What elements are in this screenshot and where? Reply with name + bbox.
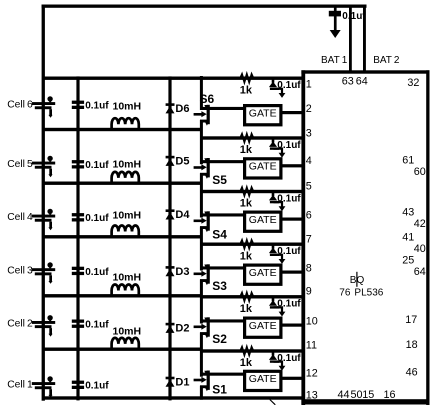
svg-text:32: 32 [407, 77, 419, 89]
svg-text:S2: S2 [212, 332, 227, 346]
svg-text:0.1uf: 0.1uf [85, 267, 109, 278]
svg-text:6: 6 [306, 209, 312, 221]
wire S4 gate-driver input [201, 213, 245, 216]
capacitor C5 0.1uf (cell 5) [72, 160, 84, 168]
svg-text:GATE: GATE [249, 267, 277, 279]
pin 42 label (right) [414, 218, 426, 230]
wire GATE (S5) to pin 4 [281, 164, 303, 167]
wire top rail (pack+ to BAT pins) [42, 5, 367, 8]
transistor S2 (MOSFET switch) [194, 317, 210, 338]
label S6 [200, 92, 215, 106]
label Cell 2 [7, 318, 33, 329]
svg-text:11: 11 [306, 340, 317, 352]
pin 4 label [306, 155, 312, 167]
svg-text:0.1uf: 0.1uf [277, 140, 301, 151]
svg-text:9: 9 [306, 286, 312, 298]
svg-text:10mH: 10mH [113, 272, 142, 284]
resistor R2 1k (pin 9) [239, 293, 255, 301]
gate driver box GATE (S6) [245, 106, 281, 125]
label 0.1uf (pin 11) [277, 353, 301, 364]
wire GATE (S6) to pin 2 [281, 111, 303, 114]
label 10mH (L4) [113, 210, 142, 222]
svg-text:BAT 2: BAT 2 [373, 55, 400, 66]
wire to pin 7 [200, 243, 303, 246]
label 1k (pin 5) [240, 198, 253, 210]
svg-text:2: 2 [306, 103, 312, 115]
wire left battery bus [42, 5, 45, 401]
capacitor C3 0.1uf (cell 3) [72, 267, 84, 275]
inductor L5 10mH [112, 172, 139, 184]
label 0.1uf (pin 7) [277, 246, 301, 257]
svg-text:0.1uf: 0.1uf [277, 80, 301, 91]
wire S1 gate-driver input [201, 373, 245, 376]
svg-text:10mH: 10mH [113, 158, 142, 170]
capacitor 0.1uf (BAT filter) [329, 7, 341, 38]
label D2 [175, 323, 189, 335]
svg-text:63: 63 [342, 75, 354, 87]
op-amp U1 BQ76PL536 IC outline [301, 70, 429, 405]
label 0.1uf (pin 1) [277, 80, 301, 91]
capacitor 0.1uf bypass (pin 11) [269, 352, 286, 371]
label S5 [212, 173, 227, 187]
label Cell 6 [7, 99, 33, 110]
label 1k (pin 3) [240, 144, 253, 156]
pin 1 label [306, 79, 312, 91]
label D6 [175, 103, 189, 115]
pin 61 label (right) [402, 154, 414, 166]
wire diode bus [168, 76, 171, 400]
svg-text:Cell 4: Cell 4 [7, 212, 33, 223]
svg-text:10: 10 [306, 315, 318, 327]
svg-text:13: 13 [306, 390, 318, 402]
label 0.1uf (C1) [85, 381, 109, 392]
label D3 [175, 266, 189, 278]
svg-text:15: 15 [362, 389, 374, 401]
label D5 [175, 156, 189, 168]
wire S6 source / S5 drain column [200, 120, 203, 164]
pin 15 label (bottom) [362, 389, 374, 401]
pin 40 label (right) [414, 243, 426, 255]
svg-text:10mH: 10mH [113, 101, 142, 113]
pin 60 label (right) [414, 166, 426, 178]
pin 18 label (right) [406, 339, 418, 351]
pin 41 label (right) [402, 231, 414, 243]
label Cell 1 [7, 379, 33, 390]
svg-text:64: 64 [356, 75, 368, 87]
label BQ [350, 275, 365, 286]
label BAT1 [321, 55, 348, 66]
transistor S1 (MOSFET switch) [194, 371, 210, 392]
svg-text:GATE: GATE [249, 161, 277, 173]
wire to pin 9 [200, 295, 303, 298]
svg-text:Cell 1: Cell 1 [7, 379, 33, 390]
svg-text:S6: S6 [200, 92, 215, 106]
svg-text:5: 5 [306, 181, 312, 193]
svg-text:0.1uf: 0.1uf [85, 101, 109, 112]
inductor L3 10mH [112, 285, 139, 297]
label 0.1uf (C3) [85, 267, 109, 278]
svg-text:D4: D4 [175, 209, 190, 221]
svg-text:Cell 6: Cell 6 [7, 99, 33, 110]
transistor S5 (MOSFET switch) [194, 158, 210, 179]
wire S5 gate-driver input [201, 160, 245, 163]
battery Cell 5 [32, 156, 55, 178]
pin 46 label (right) [406, 367, 418, 379]
svg-text:42: 42 [414, 218, 426, 230]
label 0.1uf (C5) [85, 160, 109, 171]
battery Cell 3 [32, 262, 55, 284]
wire GATE (S3) to pin 8 [281, 271, 303, 274]
pin 44 label (bottom) [338, 389, 350, 401]
pin 25 label (right) [402, 254, 414, 266]
svg-text:GATE: GATE [249, 107, 277, 119]
wire S4 source / S3 drain column [200, 227, 203, 271]
svg-text:GATE: GATE [249, 320, 277, 332]
svg-text:16: 16 [384, 389, 396, 401]
wire bottom rail (Cell1-) to pin 13 [43, 396, 303, 399]
pin 50 label (bottom) [351, 389, 363, 401]
svg-text:1k: 1k [240, 144, 253, 156]
label 10mH (L5) [113, 158, 142, 170]
wire S5 source / S4 drain column [200, 173, 203, 217]
svg-text:GATE: GATE [249, 373, 277, 385]
label 0.1uf (pin 5) [277, 193, 301, 204]
wire to pin 3 [200, 136, 303, 139]
wire to pin 5 [200, 190, 303, 193]
svg-text:0.1uf: 0.1uf [85, 213, 109, 224]
inductor L4 10mH [112, 226, 139, 238]
svg-text:25: 25 [402, 254, 414, 266]
resistor R5 1k (pin 3) [239, 134, 255, 142]
wire S1 source to bottom rail [200, 386, 203, 400]
diode D1 [166, 377, 175, 387]
label 76 PL536 [339, 288, 383, 299]
wire to pin 11 [200, 349, 303, 352]
svg-text:61: 61 [402, 154, 414, 166]
svg-text:D5: D5 [175, 156, 189, 168]
svg-text:1k: 1k [240, 198, 253, 210]
pin 13 label [306, 390, 318, 402]
svg-text:50: 50 [351, 389, 363, 401]
svg-text:S3: S3 [212, 279, 227, 293]
diode D4 [166, 209, 175, 219]
wire S2 source / S1 drain column [200, 333, 203, 377]
label Cell 3 [7, 266, 33, 277]
diode D2 [166, 323, 175, 333]
resistor R4 1k (pin 5) [239, 188, 255, 196]
svg-text:Cell 3: Cell 3 [7, 266, 33, 277]
node Cell2+ wire (left) [43, 294, 203, 297]
label S3 [212, 279, 227, 293]
svg-text:76 PL536: 76 PL536 [339, 288, 383, 299]
wire GATE (S1) to pin 12 [281, 377, 303, 380]
resistor R6 1k (pin 1) [239, 74, 255, 82]
svg-text:0.1uf: 0.1uf [342, 11, 366, 22]
svg-text:D3: D3 [175, 266, 189, 278]
pin 63 label [342, 75, 354, 87]
wire GATE (S2) to pin 10 [281, 324, 303, 327]
wire to pin 63 (BAT1) [349, 7, 352, 71]
svg-text:Cell 5: Cell 5 [7, 159, 33, 170]
node Cell4+ wire (left) [43, 182, 203, 185]
svg-text:S4: S4 [212, 228, 227, 242]
battery Cell 2 [32, 315, 55, 337]
label 0.1uf (BAT filter) [342, 11, 366, 22]
svg-text:41: 41 [402, 231, 414, 243]
cursor artifact line [356, 272, 357, 287]
svg-text:12: 12 [306, 368, 318, 380]
label S2 [212, 332, 227, 346]
node Cell5+ wire (left) [43, 128, 203, 131]
label BAT2 [373, 55, 400, 66]
gate driver box GATE (S4) [245, 212, 281, 231]
label D4 [175, 209, 190, 221]
svg-text:1: 1 [306, 79, 312, 91]
label D1 [175, 377, 189, 389]
svg-text:60: 60 [414, 166, 426, 178]
gate driver box GATE (S2) [245, 318, 281, 337]
wire S6 drain from Cell6+ node [200, 76, 203, 110]
capacitor 0.1uf bypass (pin 5) [269, 193, 286, 212]
pin 6 label [306, 209, 312, 221]
label 1k (pin 9) [240, 303, 253, 315]
svg-text:46: 46 [406, 367, 418, 379]
wire GATE (S4) to pin 6 [281, 218, 303, 221]
label S1 [212, 383, 227, 397]
transistor S3 (MOSFET switch) [194, 264, 210, 285]
svg-text:17: 17 [405, 314, 417, 326]
gate driver box GATE (S3) [245, 265, 281, 284]
label 1k (pin 11) [240, 357, 253, 369]
battery Cell 4 [32, 209, 55, 231]
label 0.1uf (C2) [85, 320, 109, 331]
pin 32 label (right) [407, 77, 419, 89]
pin 17 label (right) [405, 314, 417, 326]
wire capacitor bus [76, 76, 79, 400]
pin 8 label [306, 262, 312, 274]
svg-text:0.1uf: 0.1uf [85, 381, 109, 392]
svg-text:Cell 2: Cell 2 [7, 318, 33, 329]
label 10mH (L6) [113, 101, 142, 113]
svg-text:GATE: GATE [249, 214, 277, 226]
svg-text:0.1uf: 0.1uf [85, 320, 109, 331]
svg-text:1k: 1k [240, 250, 253, 262]
svg-text:10mH: 10mH [113, 210, 142, 222]
svg-text:7: 7 [306, 233, 312, 245]
wire stub to bottom pins [270, 400, 276, 405]
capacitor 0.1uf bypass (pin 1) [269, 79, 286, 98]
diode D6 [166, 103, 175, 113]
pin 10 label [306, 315, 318, 327]
svg-text:0.1uf: 0.1uf [277, 193, 301, 204]
svg-text:1k: 1k [240, 303, 253, 315]
pin 64 label (top) [356, 75, 368, 87]
label 0.1uf (pin 9) [277, 299, 301, 310]
label 10mH (L2) [113, 326, 142, 338]
label 0.1uf (C4) [85, 213, 109, 224]
diode D3 [166, 266, 175, 276]
node Cell1+ wire (left) [43, 348, 203, 351]
svg-text:D6: D6 [175, 103, 189, 115]
svg-text:S5: S5 [212, 173, 227, 187]
transistor S4 (MOSFET switch) [194, 211, 210, 232]
capacitor 0.1uf bypass (pin 7) [269, 245, 286, 264]
pin 12 label [306, 368, 318, 380]
wire S6 gate-driver input [201, 107, 245, 110]
svg-text:D1: D1 [175, 377, 189, 389]
capacitor 0.1uf bypass (pin 9) [269, 298, 286, 317]
pin 43 label (right) [402, 207, 414, 219]
resistor R3 1k (pin 7) [239, 240, 255, 248]
node Cell6+ wire to pin 1 [43, 77, 303, 80]
svg-text:44: 44 [338, 389, 350, 401]
label Cell 5 [7, 159, 33, 170]
svg-text:0.1uf: 0.1uf [85, 160, 109, 171]
capacitor C2 0.1uf (cell 2) [72, 320, 84, 328]
gate driver box GATE (S5) [245, 159, 281, 178]
svg-text:64: 64 [414, 266, 426, 278]
label 0.1uf (pin 3) [277, 140, 301, 151]
wire S2 gate-driver input [201, 319, 245, 322]
label 0.1uf (C6) [85, 101, 109, 112]
label 1k (pin 7) [240, 250, 253, 262]
label S4 [212, 228, 227, 242]
wire S3 source / S2 drain column [200, 280, 203, 324]
pin 11 label [306, 340, 317, 352]
battery Cell 6 [32, 96, 55, 117]
node Cell3+ wire (left) [43, 235, 203, 238]
svg-text:S1: S1 [212, 383, 227, 397]
svg-text:4: 4 [306, 155, 312, 167]
pin 16 label (bottom) [384, 389, 396, 401]
svg-text:0.1uf: 0.1uf [277, 246, 301, 257]
svg-text:1k: 1k [240, 357, 253, 369]
pin 9 label [306, 286, 312, 298]
pin 7 label [306, 233, 312, 245]
resistor R1 1k (pin 11) [239, 347, 255, 355]
gate driver box GATE (S1) [245, 371, 281, 390]
pin 3 label [306, 127, 312, 139]
capacitor C1 0.1uf (cell 1) [72, 381, 84, 389]
wire to pin 64 (BAT2) [363, 7, 366, 71]
svg-text:18: 18 [406, 339, 418, 351]
svg-text:43: 43 [402, 207, 414, 219]
svg-text:0.1uf: 0.1uf [277, 353, 301, 364]
svg-text:D2: D2 [175, 323, 189, 335]
capacitor C6 0.1uf (cell 6) [72, 101, 84, 109]
pin 5 label [306, 181, 312, 193]
label Cell 4 [7, 212, 33, 223]
capacitor C4 0.1uf (cell 4) [72, 213, 84, 221]
svg-text:8: 8 [306, 262, 312, 274]
wire S3 gate-driver input [201, 266, 245, 269]
transistor S6 (MOSFET switch) [194, 105, 210, 126]
svg-text:BAT 1: BAT 1 [321, 55, 348, 66]
svg-text:3: 3 [306, 127, 312, 139]
capacitor 0.1uf bypass (pin 3) [269, 139, 286, 158]
battery Cell 1 [32, 376, 55, 398]
inductor L6 10mH [112, 118, 139, 130]
svg-text:0.1uf: 0.1uf [277, 299, 301, 310]
inductor L2 10mH [112, 338, 139, 350]
label 10mH (L3) [113, 272, 142, 284]
svg-text:10mH: 10mH [113, 326, 142, 338]
label 1k (pin 1) [240, 84, 253, 96]
svg-text:40: 40 [414, 243, 426, 255]
pin 2 label [306, 103, 312, 115]
diode D5 [166, 156, 175, 166]
svg-text:1k: 1k [240, 84, 253, 96]
pin 64 label (right) [414, 266, 426, 278]
